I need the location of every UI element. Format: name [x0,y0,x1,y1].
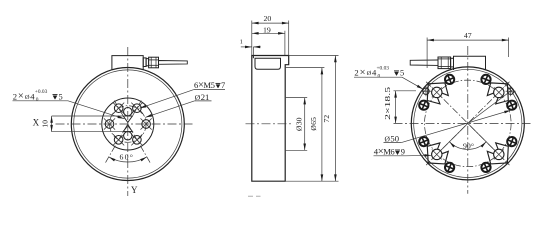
dimension line 10 vertical with arrows [51,116,53,132]
svg-text:60°: 60° [120,153,135,162]
tapped hole M6 #1 at 45deg [494,87,504,97]
dimension line 2x18.5 [395,91,397,124]
left connector cable rod [159,61,188,65]
extension line left (47 dim) [426,38,428,69]
screw head #6 at 247.5deg [445,163,454,172]
right connector cable rod [410,60,438,65]
dimension line 19 [252,32,285,34]
left connector collar 2 [146,59,149,66]
svg-text:47: 47 [464,31,472,40]
extension line top (ø30) [286,97,307,99]
left view radial centerline 240deg [105,124,128,164]
left connector housing box [112,56,143,70]
underline of ø4 annotation [13,100,69,102]
dimension line ø30 [304,98,306,151]
screw head #1 at 22.5deg [507,101,516,110]
right connector housing box [454,56,486,70]
extension line upper (pin triangle base) [52,115,133,117]
dowel pin ø4 #2 (right view) [506,86,516,96]
clamp block at 315deg [487,143,508,164]
annotation text 2x ø4 +0.03/0 depth 5 (left) [13,89,48,103]
extension line right (20 dim) [288,21,290,56]
tapped hole M5 #5 at 240deg [113,134,124,145]
tapped hole M5 #4 at 180deg [104,118,115,129]
left view boss circle (central boss) [102,98,154,150]
svg-text:+0.03: +0.03 [377,65,390,71]
left view bolt circle ø21 (dash-dot) [110,106,147,143]
screw head #5 at 202.5deg [419,137,428,146]
middle view 1mm step line [252,56,254,59]
depth symbol (M5 annotation) [216,83,221,88]
dimension 60deg arc with arrows [109,157,147,162]
extension line left (20/19/1 dims) [251,21,253,56]
svg-text:Ø21: Ø21 [195,92,210,102]
bottom extension line (ø65 / 72) [285,180,338,182]
left view radial centerline 60deg [133,101,142,116]
extension line (18.5 dim, pin row) [394,90,417,92]
dimension line 47 [427,39,509,41]
tapped hole M6 #2 at 135deg [432,87,442,97]
depth symbol (left ø4 annotation) [53,95,58,100]
svg-text:90°: 90° [463,142,474,151]
leader from ø50 annotation across view [401,110,511,142]
left view vertical centerline [127,47,129,196]
tapped hole M5 #3 at 120deg [113,103,124,114]
left view inner rim circle [74,70,182,178]
svg-text:20: 20 [264,14,272,23]
right view inner rim circle [414,69,522,177]
dimension line 20 [252,22,289,24]
middle view body outline [252,56,289,182]
extension line right (19 dim) [284,31,286,56]
right view outer circle [411,67,524,180]
leader from M5 annotation to hole [140,90,194,109]
locating line from center to right pin [468,89,514,123]
left connector hex nut [149,57,159,68]
top extension line (72) [289,55,339,57]
svg-text:1: 1 [240,38,243,45]
svg-text:5: 5 [59,92,63,101]
svg-text:2×Ø4: 2×Ø4 [354,67,377,78]
dowel pin ø4 #1 (right view) [421,86,431,96]
dowel pin hole ø4 bottom (circle + triangle marker) [123,126,132,140]
depth symbol (right ø4 annotation) [394,71,399,76]
svg-text:+0.03: +0.03 [35,89,48,95]
right view bolt circle ø50 (dash-dot) [425,80,512,167]
tapped hole M6 #4 at 315deg [494,149,504,159]
leader from ø4 annotation to top pin hole [68,101,124,119]
clamp block at 45deg [487,83,508,104]
left connector collar 1 [143,58,146,67]
screw head #2 at 67.5deg [481,75,490,84]
extension line bottom (ø30) [286,149,307,151]
underline of M6 annotation [374,155,407,157]
svg-text:0: 0 [36,97,39,103]
90deg dimension radial line 315deg [468,123,495,150]
left view radial centerline 300deg [128,124,151,164]
underline of ø50 annotation [384,142,402,144]
dimension line ø65 [321,68,323,182]
leader from M6 annotation to M6 hole [406,154,431,157]
leader from ø21 annotation to bolt circle [145,101,194,118]
faint hidden dashes below middle view [248,195,253,197]
svg-text:2×18.5: 2×18.5 [383,87,392,120]
svg-text:9: 9 [401,148,405,157]
underline of ø21 annotation [194,100,211,102]
left view horizontal centerline [56,123,195,125]
90deg dimension radial line 225deg [441,123,468,150]
svg-text:Y: Y [131,185,138,195]
extension line right (47 dim) [508,38,510,58]
dowel pin hole ø4 top (circle + triangle marker) [123,108,132,123]
svg-text:Ø50: Ø50 [385,134,400,144]
screw head #4 at 157.5deg [419,101,428,110]
right view diagonal centerline 45deg [426,82,509,165]
extension line lower (pin triangle base) [52,131,133,133]
svg-text:7: 7 [221,81,225,90]
svg-text:Ø30: Ø30 [295,117,304,131]
annotation text 2x ø4 +0.03/0 depth 5 (right) [354,65,389,79]
right connector collar [451,58,454,67]
dimension 90deg arc with arrows [449,142,486,150]
underline of right ø4 annotation [354,76,402,78]
svg-text:72: 72 [322,115,331,123]
underline of M5 annotation [194,89,225,91]
right view horizontal centerline [394,122,532,124]
tapped hole M5 #1 at 0deg [141,118,152,129]
svg-text:Ø65: Ø65 [309,117,318,131]
extension line top (ø65) [286,67,325,69]
svg-text:X: X [33,117,40,127]
right view vertical centerline [467,46,469,194]
svg-text:5: 5 [400,69,404,78]
middle view top groove (recess with rounded bottom corners) [255,58,281,69]
clamp block at 225deg [427,143,448,164]
middle view horizontal centerline [246,123,293,125]
right connector hex nut [438,57,451,69]
clamp block at 135deg [427,83,448,104]
svg-text:10: 10 [41,120,50,128]
left view radial centerline 120deg [114,101,123,116]
screw head #8 at 337.5deg [507,137,516,146]
svg-text:0: 0 [378,73,381,79]
right view diagonal centerline 135deg [426,82,509,165]
dimension line 1 with outside arrows [241,46,261,48]
left view outer circle (flange OD) [71,68,184,181]
screw head #3 at 112.5deg [445,75,454,84]
svg-text:19: 19 [263,26,271,35]
extension line (1 dim) [252,47,254,55]
tapped hole M6 #3 at 225deg [432,149,442,159]
depth symbol (M6 annotation) [395,150,400,155]
tapped hole M5 #6 at 300deg [131,134,142,145]
screw head #7 at 292.5deg [481,163,490,172]
leader from right ø4 annotation to left pin [402,77,423,89]
dimension line 72 [334,56,336,182]
tapped hole M5 #2 at 60deg [131,103,142,114]
